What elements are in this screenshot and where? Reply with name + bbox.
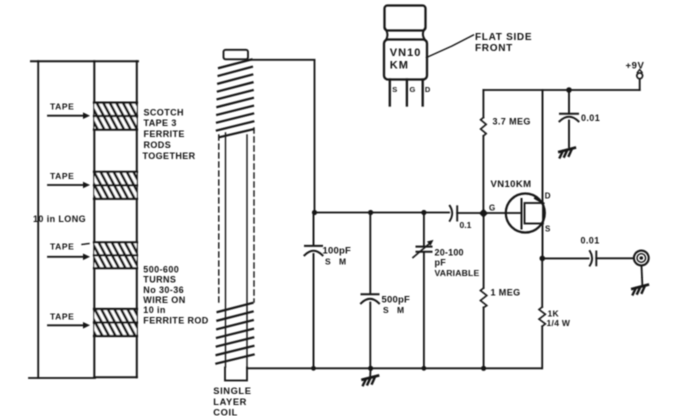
transistor Q1 gate lead bbox=[506, 212, 522, 214]
package body bbox=[384, 40, 427, 80]
ferrite rod bottom edge bbox=[94, 376, 137, 378]
connector J1 output jack bbox=[634, 251, 649, 266]
coil L1 rod inner edges bbox=[226, 133, 248, 367]
wire supply rail bbox=[483, 89, 639, 91]
node junction dot bottom rail at 500pF bbox=[368, 366, 373, 371]
note 500-600 turns winding bbox=[143, 264, 209, 325]
svg-text:KM: KM bbox=[390, 60, 409, 72]
svg-text:SCOTCH: SCOTCH bbox=[144, 107, 184, 117]
svg-text:1/4 W: 1/4 W bbox=[547, 318, 571, 328]
ground at output jack bbox=[632, 285, 647, 295]
capacitor 500pF silver mica bbox=[361, 213, 379, 369]
svg-text:FERRITE: FERRITE bbox=[144, 129, 185, 139]
note scotch tape rods together bbox=[143, 107, 196, 161]
label TAPE 2 with arrow bbox=[48, 171, 90, 189]
svg-text:FERRITE ROD: FERRITE ROD bbox=[143, 316, 209, 326]
tape band 4 hatched bbox=[94, 309, 137, 336]
capacitor 0.01 output bbox=[590, 251, 634, 266]
node junction dot bottom rail at 100pF bbox=[311, 366, 316, 371]
label 1K 1/4 W bbox=[547, 309, 571, 329]
svg-text:TOGETHER: TOGETHER bbox=[143, 151, 196, 161]
node junction dot supply at bypass cap bbox=[566, 87, 572, 93]
transistor Q1 gate bar bbox=[521, 199, 523, 229]
node junction dot top rail at 500pF bbox=[368, 210, 373, 215]
svg-text:SINGLE: SINGLE bbox=[213, 386, 251, 396]
svg-text:VARIABLE: VARIABLE bbox=[435, 268, 480, 278]
tape band 2 hatched bbox=[94, 172, 137, 199]
wire source to output cap bbox=[542, 257, 588, 259]
svg-text:D: D bbox=[425, 85, 431, 94]
svg-text:TAPE: TAPE bbox=[50, 102, 74, 112]
svg-text:0.01: 0.01 bbox=[581, 236, 600, 246]
coil L1 bottom cap bbox=[225, 368, 247, 381]
ground at bypass cap bbox=[559, 148, 574, 158]
node junction dot top rail at coil feed bbox=[312, 210, 317, 215]
svg-text:1 MEG: 1 MEG bbox=[491, 288, 521, 298]
capacitor 100pF silver mica bbox=[305, 213, 323, 369]
label TAPE 4 with arrow bbox=[48, 312, 90, 329]
terminal +9V bbox=[637, 70, 643, 91]
label TAPE 3 with arrow bbox=[48, 242, 90, 260]
svg-text:S: S bbox=[392, 85, 397, 94]
label SINGLE LAYER COIL bbox=[213, 386, 251, 416]
svg-text:500pF: 500pF bbox=[382, 295, 410, 306]
svg-text:FRONT: FRONT bbox=[475, 43, 513, 54]
wire tank top rail bbox=[315, 212, 450, 214]
ferrite rod right edge bbox=[136, 61, 138, 377]
package waist left bbox=[385, 28, 388, 42]
node junction dot bottom rail at variable cap bbox=[422, 366, 427, 371]
wire tank bottom rail bbox=[247, 367, 542, 369]
coil L1 bottom winding bbox=[216, 303, 253, 364]
package drawing VN10KM tab bbox=[385, 6, 426, 31]
svg-text:TAPE: TAPE bbox=[50, 171, 74, 181]
package waist right bbox=[423, 28, 427, 42]
label S G D pins bbox=[392, 85, 431, 94]
svg-text:S M: S M bbox=[383, 305, 407, 315]
svg-text:No 30-36: No 30-36 bbox=[143, 285, 184, 295]
label 500pF S M bbox=[382, 295, 410, 316]
svg-text:TURNS: TURNS bbox=[143, 275, 176, 285]
capacitor 0.1 coupling at gate bbox=[450, 206, 506, 221]
svg-text:10 in LONG: 10 in LONG bbox=[33, 214, 86, 224]
label 100pF S M bbox=[323, 246, 351, 267]
svg-text:VN10: VN10 bbox=[390, 47, 422, 59]
svg-text:COIL: COIL bbox=[213, 408, 238, 416]
resistor 1K 1/4W bbox=[539, 258, 545, 368]
wire drain to rail bbox=[542, 90, 544, 203]
svg-text:WIRE ON: WIRE ON bbox=[143, 295, 185, 305]
pointer line flat side bbox=[427, 35, 474, 58]
package leg D bbox=[422, 80, 424, 106]
svg-text:RODS: RODS bbox=[144, 140, 172, 150]
resistor 1 MEG bbox=[480, 213, 486, 368]
svg-text:+9V: +9V bbox=[626, 61, 645, 72]
tape band 3 hatched bbox=[94, 242, 137, 268]
node gate junction dot bbox=[479, 209, 488, 218]
ferrite rod left edge bbox=[93, 61, 95, 377]
svg-text:TAPE: TAPE bbox=[50, 242, 74, 252]
wire coil top to tank bbox=[248, 60, 315, 213]
wire top line of rod assembly bbox=[31, 60, 138, 62]
wire source down bbox=[542, 224, 544, 259]
resistor 3.7 MEG bbox=[481, 90, 487, 213]
svg-text:S M: S M bbox=[325, 257, 349, 267]
svg-text:TAPE 3: TAPE 3 bbox=[144, 118, 177, 128]
wire left vertical of rod assembly bbox=[37, 61, 39, 378]
transistor Q1 channel body bbox=[525, 203, 544, 224]
svg-text:0.1: 0.1 bbox=[460, 220, 472, 230]
label FLAT SIDE FRONT bbox=[475, 32, 532, 54]
svg-text:G: G bbox=[410, 85, 416, 94]
svg-text:S: S bbox=[545, 225, 551, 234]
svg-text:20-100: 20-100 bbox=[435, 248, 464, 258]
svg-text:LAYER: LAYER bbox=[213, 397, 247, 407]
svg-text:100pF: 100pF bbox=[323, 246, 351, 257]
label 20-100 pF VARIABLE bbox=[435, 248, 480, 279]
svg-text:G: G bbox=[489, 204, 495, 213]
coil L1 top cap bbox=[224, 50, 249, 60]
svg-text:TAPE: TAPE bbox=[50, 312, 74, 322]
svg-text:pF: pF bbox=[435, 258, 447, 268]
label VN10 KM bbox=[390, 47, 422, 72]
wire jack to ground bbox=[641, 266, 644, 285]
svg-text:D: D bbox=[545, 192, 551, 201]
coil L1 dashed form outline bbox=[219, 128, 254, 305]
svg-text:1K: 1K bbox=[548, 309, 560, 319]
package leg S bbox=[389, 80, 391, 106]
node source junction dot bbox=[540, 256, 546, 262]
svg-text:10 in: 10 in bbox=[143, 305, 166, 315]
svg-text:3.7 MEG: 3.7 MEG bbox=[493, 117, 531, 127]
capacitor 0.01 bypass bbox=[560, 90, 579, 147]
label TAPE 1 with arrow bbox=[48, 102, 90, 120]
tape band 1 hatched bbox=[94, 103, 137, 130]
package leg G bbox=[406, 80, 408, 106]
variable capacitor 20-100 pF bbox=[413, 213, 434, 369]
svg-text:0.01: 0.01 bbox=[581, 113, 600, 123]
transistor Q1 VN10KM circle bbox=[506, 194, 545, 233]
svg-text:VN10KM: VN10KM bbox=[491, 179, 532, 190]
svg-text:FLAT SIDE: FLAT SIDE bbox=[475, 32, 532, 43]
transistor Q1 drain lead diagonal bbox=[535, 198, 544, 203]
ground at tank bottom rail bbox=[363, 368, 378, 385]
node junction dot bottom rail at 1 MEG bbox=[481, 366, 486, 371]
wire bottom line of rod assembly bbox=[29, 377, 95, 379]
svg-text:500-600: 500-600 bbox=[143, 264, 179, 274]
node junction dot top rail at variable cap bbox=[421, 210, 426, 215]
coil L1 top winding bbox=[217, 60, 254, 138]
